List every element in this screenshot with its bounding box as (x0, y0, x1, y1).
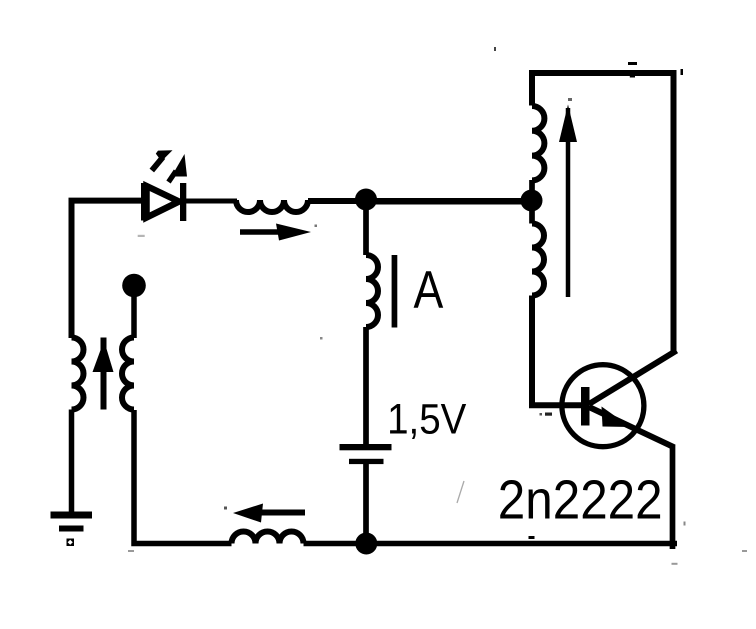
inductor L5 (lower right, 3 bumps bulging right) (532, 224, 544, 296)
wire: emitter down to bottom wire (670, 445, 676, 550)
transistor Q1 emitter arrowhead (602, 407, 631, 428)
transistor Q1 base bar (581, 387, 590, 426)
speck above top-right wire (628, 62, 637, 65)
ground bar 1 (51, 512, 93, 519)
speck bottom-left edge (128, 550, 134, 552)
wire: LED cathode to inductor L1 (186, 199, 237, 204)
inductor L4 (upper right, 3 bumps bulging right) (532, 106, 544, 180)
speck near L1 arrow (315, 225, 318, 228)
speck above bottom wire near transistor (529, 536, 535, 539)
wire: left vertical from primary coil down to ground (69, 410, 75, 513)
speck top middle (494, 47, 496, 51)
svg-text:2n2222: 2n2222 (498, 470, 663, 531)
speck right of bottom-right corner (684, 522, 686, 526)
wire: battery bottom plate down to node N3 (363, 464, 369, 544)
wire: node N1 to node N2 (367, 198, 532, 205)
node N3 junction dot (355, 533, 377, 555)
speck dash below bottom-right corner (672, 563, 678, 565)
current arrow up (right side, long): head (559, 105, 577, 143)
battery B1 short plate (349, 459, 384, 464)
wire: top-right loop (up from node N2, across top, down right side) (532, 73, 674, 353)
speck near long arrow tip (568, 98, 572, 101)
speck bottom-right edge (742, 550, 747, 552)
speck right of top-right corner (681, 69, 684, 75)
LED D1 triangle (147, 186, 180, 218)
LED light arrow 2 shaft (169, 171, 177, 182)
gray smudge below LED (138, 235, 145, 237)
inductor L2 (ammeter branch, 3 bumps bulging right) (366, 255, 378, 327)
svg-text:A: A (414, 261, 444, 319)
ground bar 2 (59, 526, 84, 532)
secondary winding coil (3 bumps bulging left) (122, 338, 134, 410)
node N1 junction dot (355, 189, 377, 211)
ground square dot with white diamond (67, 539, 75, 547)
speck left of L2 coil (320, 337, 323, 340)
wire: node N1 down to inductor L2 (363, 200, 369, 255)
svg-text:1,5V: 1,5V (387, 395, 466, 443)
current arrow (left) above L3: shaft (258, 510, 305, 516)
faint scratch left of 2n2222 (457, 481, 464, 503)
speck dash below transistor base wire (545, 413, 552, 416)
primary winding coil (left wire, 3 bumps bulging right) (72, 338, 84, 410)
current arrow (right) under L1: head (276, 224, 311, 241)
wire: L3 to bottom-right corner (304, 541, 678, 547)
node N2 junction dot (521, 190, 543, 212)
wire: L5 down and right to transistor base (532, 296, 581, 406)
wire: L2 down to battery top plate (363, 327, 369, 444)
current arrow (right) under L1: shaft (240, 229, 284, 235)
current arrow up (between left coils): head (93, 341, 114, 373)
inductor L1 (top, 3 bumps below wire) (236, 200, 308, 212)
battery B1 long plate (340, 444, 392, 450)
speck nub below top-right wire (630, 75, 635, 78)
LED light arrow 1 head (156, 150, 173, 161)
wire: top-left L (left vertical down to primary coil + horizontal to LED anode) (72, 201, 143, 338)
LED D1 cathode bar (180, 183, 186, 221)
wire: L1 to node N1 (308, 198, 367, 204)
wire: L4 to node N2 (529, 180, 535, 224)
transistor Q1 circle (562, 365, 644, 447)
inductor L3 (bottom, 3 bumps above wire) (232, 532, 304, 544)
current arrow up (between left coils): shaft (101, 338, 107, 410)
secondary winding phase dot (122, 274, 146, 298)
wire: phase dot down to secondary coil (131, 286, 137, 339)
transistor Q1 emitter line (589, 407, 674, 447)
core bar next to L2 (392, 255, 398, 328)
current arrow (left) above L3: head (233, 504, 263, 523)
LED light arrow 1 shaft (152, 157, 163, 171)
speck dot below transistor base wire (540, 413, 543, 416)
LED D1 anode thick bar (left side of triangle) (141, 183, 148, 221)
speck near left bottom arrow (224, 507, 227, 510)
wire: bottom-left corner of secondary winding to inductor L3 (134, 410, 232, 544)
transistor Q1 collector line (589, 351, 677, 404)
LED light arrow 2 head (172, 154, 188, 177)
current arrow up (right side, long): shaft (566, 108, 571, 297)
